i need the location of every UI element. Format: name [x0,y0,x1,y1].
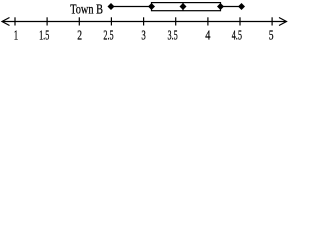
axis right arrowhead [279,18,287,26]
axis line [3,21,287,23]
median point diamond [180,3,187,10]
tick 2.5 [110,17,112,25]
Q1 point diamond [148,3,155,10]
max point diamond [238,3,245,10]
Q3 point diamond [217,3,224,10]
tick 4 [207,17,209,25]
box Q1-Q3 [152,3,221,11]
svg-text:2.5: 2.5 [103,29,113,44]
tick 3.5 [175,17,177,25]
tick 1.5 [46,17,48,25]
median line [182,3,184,11]
svg-text:3: 3 [141,29,145,44]
svg-text:3.5: 3.5 [168,29,178,44]
axis left arrowhead [2,18,10,26]
svg-text:Town B: Town B [70,2,103,17]
svg-text:1.5: 1.5 [39,29,49,44]
svg-text:1: 1 [14,29,18,44]
tick 1 [14,17,16,25]
background [0,0,288,48]
svg-text:2: 2 [77,29,82,44]
min point diamond [108,3,115,10]
tick 3 [143,17,145,25]
svg-text:4: 4 [205,29,210,44]
tick 4.5 [239,17,241,25]
tick 2 [78,17,80,25]
whisker right (Q3 to max) [221,6,242,8]
tick 5 [271,17,273,25]
whisker left (2.5 to Q1) [111,6,152,8]
svg-text:4.5: 4.5 [232,29,242,44]
svg-text:5: 5 [269,29,274,44]
